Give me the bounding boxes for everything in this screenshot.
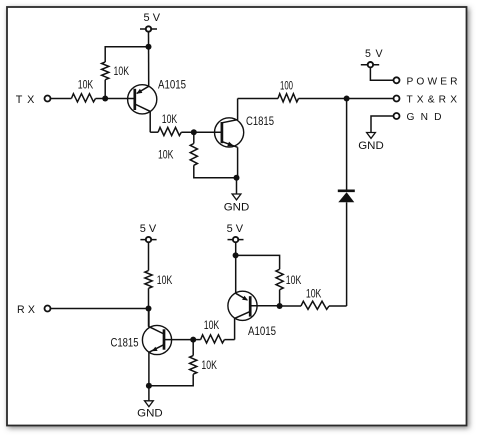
svg-text:10K: 10K [78, 79, 94, 91]
svg-text:5 V: 5 V [140, 223, 157, 235]
svg-text:5 V: 5 V [227, 223, 244, 235]
svg-text:10K: 10K [286, 275, 302, 287]
svg-text:T X & R X: T X & R X [407, 95, 458, 106]
svg-text:10K: 10K [306, 289, 322, 301]
svg-text:G N D: G N D [407, 112, 442, 123]
svg-text:X: X [27, 94, 34, 106]
svg-text:C1815: C1815 [111, 335, 139, 349]
svg-text:10K: 10K [162, 114, 178, 126]
svg-text:GND: GND [137, 408, 163, 420]
svg-text:A1015: A1015 [248, 324, 276, 338]
svg-text:10K: 10K [204, 320, 220, 332]
svg-text:100: 100 [280, 81, 293, 93]
svg-text:10K: 10K [157, 275, 173, 287]
svg-text:5 V: 5 V [365, 48, 383, 60]
svg-text:A1015: A1015 [158, 78, 186, 92]
svg-text:GND: GND [358, 140, 384, 152]
svg-text:10K: 10K [158, 149, 174, 161]
svg-text:GND: GND [224, 202, 250, 214]
svg-text:5 V: 5 V [144, 12, 161, 24]
svg-text:10K: 10K [201, 360, 217, 372]
svg-text:10K: 10K [114, 66, 130, 78]
svg-text:R X: R X [17, 304, 35, 316]
svg-text:C1815: C1815 [246, 114, 274, 128]
svg-text:T: T [16, 94, 23, 106]
